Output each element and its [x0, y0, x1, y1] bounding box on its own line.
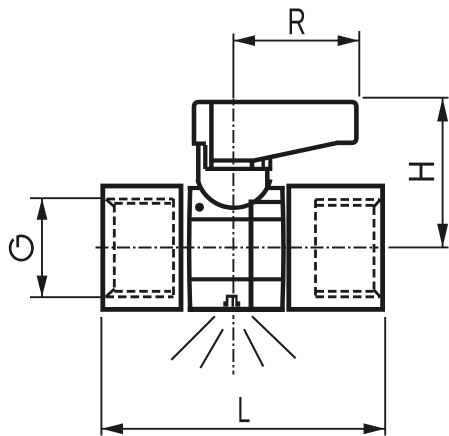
- body neck left wall: [196, 145, 201, 184]
- body stem vertical V1: [249, 200, 254, 310]
- right block thread crest bottom (dashed): [316, 295, 380, 298]
- label R: [290, 9, 305, 35]
- dimension L line: [101, 428, 385, 430]
- handle tooth 3: [268, 155, 272, 169]
- handle tooth 2: [262, 157, 265, 169]
- right block top chamfer: [374, 200, 381, 207]
- dimension R right arrow: [338, 35, 359, 46]
- handle tooth 1: [250, 159, 255, 170]
- body left edge: [189, 187, 190, 311]
- dimension L right extension: [384, 317, 386, 436]
- body upper-right horizontal: [251, 200, 283, 204]
- body mid horizontal: [188, 217, 283, 221]
- right block thread root vertical (dashed): [373, 207, 376, 290]
- body neck right wall: [265, 167, 270, 189]
- bottom vent plug: [223, 295, 240, 307]
- dimension R line: [233, 40, 359, 42]
- left block thread crest bottom (dashed): [106, 295, 174, 298]
- right block thread root top (dashed): [316, 204, 374, 207]
- right end block outline: [289, 186, 383, 309]
- handle boss bottom: [192, 141, 206, 145]
- left block thread root top (dashed): [114, 202, 171, 205]
- dimension H bottom extension: [389, 246, 449, 248]
- dimension L left extension: [100, 317, 102, 436]
- vertical centerline dash-dot: [232, 99, 234, 294]
- handle inner vertical: [209, 103, 214, 169]
- handle plate bottom bar: [205, 167, 272, 171]
- dimension H line: [442, 98, 444, 248]
- right block thread root bottom (dashed): [316, 290, 374, 293]
- dimension L left arrow: [102, 423, 123, 434]
- dimension G bottom extension: [30, 296, 101, 298]
- body bottom edge: [188, 307, 285, 312]
- valve handle outline: [194, 102, 356, 143]
- body pin dot: [195, 203, 204, 212]
- left block bottom chamfer: [106, 289, 115, 297]
- dimension L right arrow: [364, 423, 385, 434]
- body lower horizontal: [188, 277, 283, 281]
- label L: [239, 397, 249, 422]
- handle plate top bar: [209, 158, 255, 162]
- body right edge: [282, 187, 283, 311]
- left block thread root bottom (dashed): [114, 290, 171, 293]
- label G: [10, 236, 32, 260]
- left block thread crest top (dashed): [107, 198, 174, 201]
- handle underside slope: [253, 143, 338, 161]
- vent spray line far left: [171, 316, 215, 360]
- left block thread root vertical (dashed): [113, 204, 116, 291]
- vent spray line far right: [252, 316, 296, 358]
- vertical centerline below plug: [232, 315, 234, 375]
- dimension G line: [41, 198, 43, 297]
- dimension H bottom arrow: [437, 224, 448, 247]
- vertical centerline upper solid (R extension): [232, 34, 234, 99]
- left block top chamfer: [106, 199, 115, 207]
- right block thread end vertical (dashed): [314, 200, 317, 297]
- body right shoulder: [267, 186, 285, 190]
- dimension R left arrow: [234, 35, 255, 46]
- vent spray line mid left: [200, 329, 223, 368]
- dimension G top extension: [30, 197, 101, 199]
- right block thread crest top (dashed): [316, 198, 380, 201]
- left end block outline: [103, 186, 181, 309]
- left block thread end vertical (dashed): [172, 199, 175, 297]
- horizontal centerline: [96, 247, 379, 249]
- dimension H top arrow: [437, 98, 448, 122]
- label H: [409, 163, 434, 181]
- right block bottom chamfer: [374, 290, 381, 297]
- body left shoulder: [188, 186, 202, 190]
- vent spray line mid right: [244, 329, 263, 366]
- dimension G top arrow: [37, 198, 48, 219]
- handle stem line: [203, 145, 207, 169]
- dimension G bottom arrow: [37, 276, 48, 297]
- dimension H top extension: [363, 97, 449, 99]
- dimension R right extension: [358, 31, 360, 97]
- body dome arc: [198, 179, 271, 207]
